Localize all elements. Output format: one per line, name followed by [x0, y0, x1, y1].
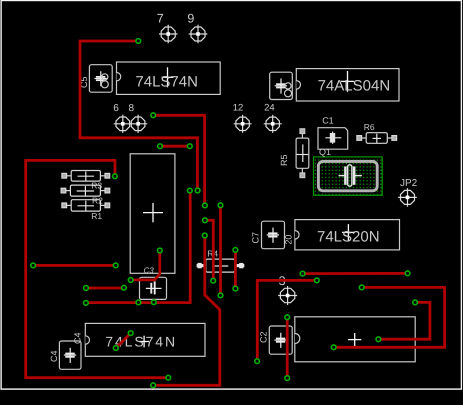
svg-text:74ALS04N: 74ALS04N	[318, 77, 391, 94]
via	[157, 248, 162, 253]
svg-text:20: 20	[284, 235, 294, 245]
svg-text:R5: R5	[279, 154, 289, 166]
wire	[80, 41, 197, 191]
wire	[286, 317, 289, 378]
via	[285, 315, 290, 320]
svg-text:Q1: Q1	[319, 147, 331, 157]
wire	[86, 287, 124, 290]
svg-text:12: 12	[233, 103, 244, 114]
via	[84, 301, 89, 306]
via	[136, 300, 141, 305]
wire	[26, 160, 169, 377]
via	[31, 263, 36, 268]
via	[136, 39, 141, 44]
svg-text:R6: R6	[364, 122, 375, 132]
svg-text:9: 9	[187, 12, 194, 26]
wire	[33, 264, 116, 267]
via	[158, 144, 163, 149]
via	[187, 188, 192, 193]
svg-text:C4: C4	[49, 350, 59, 362]
capacitor C2	[269, 326, 292, 354]
capacitor C7	[262, 221, 285, 249]
svg-text:C2: C2	[258, 331, 268, 343]
wire	[160, 145, 190, 148]
svg-text:C1: C1	[322, 116, 334, 126]
via	[187, 144, 192, 149]
capacitor C3	[140, 277, 167, 299]
IC U1 outline	[130, 154, 175, 273]
pad 12	[234, 115, 252, 133]
wire	[378, 302, 430, 339]
via	[233, 286, 238, 291]
wire	[153, 236, 220, 386]
crystal Q1	[314, 157, 383, 195]
wire	[234, 250, 237, 289]
IC U6 74ALS04N	[296, 69, 399, 101]
via	[84, 286, 89, 291]
via	[405, 271, 410, 276]
svg-text:JP2: JP2	[400, 178, 418, 189]
via	[413, 300, 418, 305]
via	[314, 278, 319, 283]
via	[166, 375, 171, 380]
svg-text:7: 7	[157, 12, 164, 26]
wire	[86, 191, 190, 303]
svg-text:C3: C3	[144, 266, 155, 275]
via	[113, 263, 118, 268]
resistor R2	[61, 185, 110, 196]
svg-text:6: 6	[113, 103, 119, 114]
svg-text:R1: R1	[91, 211, 102, 221]
via	[195, 188, 200, 193]
capacitor C1	[318, 128, 348, 150]
via	[128, 331, 133, 336]
svg-text:8: 8	[129, 103, 135, 114]
via	[376, 337, 381, 342]
svg-text:74LS20N: 74LS20N	[317, 228, 380, 245]
resistor R3	[62, 171, 110, 182]
via	[113, 346, 118, 351]
via	[331, 345, 336, 350]
IC U4 74LS74N	[85, 323, 205, 356]
via	[300, 271, 305, 276]
via	[202, 233, 207, 238]
via	[218, 293, 223, 298]
via	[255, 359, 260, 364]
pad JP2	[398, 188, 417, 207]
via	[151, 300, 156, 305]
pad 8	[129, 115, 147, 133]
resistor R1	[62, 200, 110, 211]
via	[285, 376, 290, 381]
pad 6	[114, 115, 132, 133]
via	[218, 203, 223, 208]
via	[113, 174, 118, 179]
IC U2 outline	[295, 317, 415, 362]
via	[203, 203, 208, 208]
via	[151, 383, 156, 388]
capacitor C6	[270, 72, 293, 99]
via	[203, 218, 208, 223]
svg-text:C7: C7	[251, 232, 261, 244]
wire	[116, 333, 131, 348]
resistor R4	[197, 259, 245, 272]
svg-text:C4: C4	[73, 332, 83, 344]
svg-text:74LS74N: 74LS74N	[135, 74, 198, 91]
pad 7	[159, 25, 178, 44]
IC U5 74LS74N	[117, 62, 221, 94]
resistor R6	[357, 133, 397, 144]
wire	[303, 272, 408, 275]
resistor R5	[296, 129, 309, 178]
via	[359, 285, 364, 290]
via	[211, 278, 216, 283]
pad 9	[189, 25, 208, 44]
via	[151, 113, 156, 118]
pad 24	[264, 115, 282, 133]
via	[128, 278, 133, 283]
wire	[131, 251, 160, 280]
capacitor C4	[59, 341, 81, 369]
wire	[334, 287, 445, 347]
pad 3	[278, 286, 297, 305]
svg-text:24: 24	[264, 103, 275, 114]
wire	[153, 115, 204, 205]
wire	[205, 220, 213, 280]
capacitor C5	[89, 65, 112, 93]
via	[233, 248, 238, 253]
wire	[257, 280, 317, 361]
IC U7 74LS20N	[295, 220, 400, 250]
wire	[219, 205, 222, 295]
via	[122, 285, 127, 290]
